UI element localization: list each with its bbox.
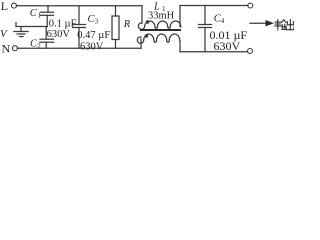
- svg-text:4: 4: [221, 17, 225, 25]
- label C3 value 0.47 uF: [77, 30, 110, 41]
- label output 输出 (drawn strokes): [275, 20, 294, 31]
- svg-text:630V: 630V: [214, 39, 241, 53]
- svg-text:3: 3: [95, 18, 99, 26]
- ground: [14, 27, 28, 37]
- terminal output bottom: [248, 49, 253, 54]
- capacitor C4: [199, 6, 212, 52]
- label C1 value 630V: [47, 29, 71, 40]
- capacitor C2: [40, 27, 54, 49]
- wire top left segment: [16, 5, 142, 7]
- label L1: [153, 1, 166, 13]
- terminal output top: [248, 3, 253, 8]
- capacitor C1: [41, 6, 54, 27]
- label V: [0, 28, 8, 40]
- svg-text:1: 1: [38, 11, 42, 19]
- svg-text:33mH: 33mH: [148, 10, 175, 21]
- terminal L: [12, 3, 17, 8]
- svg-text:0.47 µF: 0.47 µF: [77, 30, 110, 41]
- svg-text:630V: 630V: [47, 29, 71, 40]
- node N label: [2, 41, 11, 55]
- label C3 value 630V: [80, 42, 104, 53]
- terminal N: [13, 46, 18, 51]
- svg-text:R: R: [123, 19, 131, 30]
- label C4 value 630V: [214, 39, 241, 53]
- svg-text:N: N: [2, 41, 11, 55]
- inductor L1 common-mode choke: [137, 6, 181, 52]
- wire top right segment: [180, 5, 248, 7]
- label C1 value 0.1 uF: [49, 18, 77, 29]
- svg-text:630V: 630V: [80, 42, 104, 53]
- wire mid ground segment: [16, 23, 47, 27]
- label C4 value 0.01 uF: [210, 28, 248, 42]
- label C2: [30, 38, 41, 50]
- wire bottom left segment: [17, 47, 141, 49]
- label C1: [30, 8, 42, 19]
- label R: [123, 19, 131, 30]
- resistor R: [112, 6, 119, 48]
- node L label: [1, 0, 8, 13]
- capacitor C3: [73, 6, 86, 48]
- svg-text:2: 2: [37, 42, 41, 50]
- label L1 value 33mH: [148, 10, 175, 21]
- svg-text:C: C: [30, 8, 38, 19]
- label C4: [214, 13, 225, 25]
- svg-text:L: L: [1, 0, 8, 13]
- label C3: [88, 14, 99, 26]
- wire bottom right segment: [180, 51, 248, 53]
- output arrow: [250, 20, 274, 26]
